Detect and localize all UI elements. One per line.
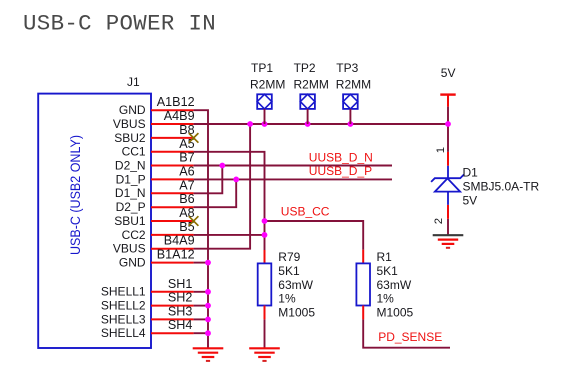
wire D1_N up to UUSB_D_N bbox=[194, 166, 223, 194]
wire VBUS B4A9 riser bbox=[194, 124, 251, 249]
svg-text:TP2: TP2 bbox=[294, 61, 316, 75]
test point TP1 bbox=[257, 94, 272, 124]
svg-text:R1: R1 bbox=[377, 250, 393, 264]
diode D1 pin 1 bbox=[447, 152, 449, 178]
svg-text:A1B12: A1B12 bbox=[157, 95, 195, 109]
no-connect X on pin B8 bbox=[189, 133, 199, 143]
svg-text:UUSB_D_N: UUSB_D_N bbox=[309, 150, 373, 164]
pin CC1 A5 bbox=[122, 137, 195, 159]
svg-text:B6: B6 bbox=[179, 192, 194, 206]
test point TP2 bbox=[300, 94, 315, 124]
svg-text:SHELL2: SHELL2 bbox=[101, 299, 146, 313]
wire SHELL4 stub to bus bbox=[194, 332, 208, 334]
wire CC2 to riser bbox=[194, 234, 265, 236]
power port 5V bar bbox=[440, 95, 455, 107]
svg-text:5K1: 5K1 bbox=[377, 264, 399, 278]
svg-text:CC2: CC2 bbox=[122, 228, 146, 242]
svg-text:GND: GND bbox=[119, 103, 146, 117]
svg-text:63mW: 63mW bbox=[377, 278, 412, 292]
svg-text:5V: 5V bbox=[441, 66, 456, 80]
resistor R79 body bbox=[258, 250, 272, 319]
svg-text:SHELL1: SHELL1 bbox=[101, 285, 146, 299]
wire D2_P up to UUSB_D_P bbox=[194, 179, 237, 207]
wire R1 bottom / PD_SENSE bbox=[363, 319, 450, 347]
wire D1 pin2 to ground bbox=[447, 219, 449, 235]
svg-text:R2MM: R2MM bbox=[250, 78, 285, 92]
svg-text:A8: A8 bbox=[179, 206, 194, 220]
svg-text:D1_P: D1_P bbox=[116, 172, 146, 186]
wire SHELL2 stub to bus bbox=[194, 305, 208, 307]
svg-text:R2MM: R2MM bbox=[294, 78, 329, 92]
svg-text:SHELL3: SHELL3 bbox=[101, 312, 146, 326]
svg-text:SBU1: SBU1 bbox=[114, 214, 146, 228]
svg-text:GND: GND bbox=[119, 256, 146, 270]
wire SHELL3 stub to bus bbox=[194, 318, 208, 320]
pin D1_N A7 bbox=[115, 178, 195, 200]
svg-text:5K1: 5K1 bbox=[278, 264, 300, 278]
svg-text:SH2: SH2 bbox=[168, 291, 193, 305]
pin GND A1B12 bbox=[119, 95, 195, 117]
svg-text:M1005: M1005 bbox=[278, 306, 315, 320]
test point TP3 bbox=[343, 94, 358, 124]
svg-text:R79: R79 bbox=[278, 250, 300, 264]
svg-text:VBUS: VBUS bbox=[113, 242, 146, 256]
junction dots VBUS rail bbox=[247, 121, 451, 127]
svg-text:1%: 1% bbox=[377, 292, 395, 306]
svg-text:D2_N: D2_N bbox=[115, 158, 146, 172]
diode D1 symbol bbox=[431, 175, 464, 205]
wire 5V stub bbox=[447, 107, 449, 124]
pin SBU2 B8 bbox=[114, 123, 194, 145]
wire CC1 to USB_CC riser bbox=[194, 152, 265, 250]
ground below D1 bbox=[433, 235, 464, 248]
junction USB_CC bbox=[262, 218, 268, 224]
svg-text:SH3: SH3 bbox=[168, 304, 193, 318]
svg-text:B8: B8 bbox=[179, 123, 194, 137]
labels R79 bbox=[278, 250, 315, 319]
svg-text:B1A12: B1A12 bbox=[157, 248, 195, 262]
svg-text:SHELL4: SHELL4 bbox=[101, 326, 146, 340]
svg-text:SH1: SH1 bbox=[168, 277, 193, 291]
svg-text:TP1: TP1 bbox=[251, 61, 273, 75]
labels D1 bbox=[463, 166, 540, 208]
pin SHELL1 SH1 bbox=[101, 277, 194, 299]
wire VBUS junction to D1 pin1 bbox=[447, 124, 449, 152]
svg-text:R2MM: R2MM bbox=[336, 78, 371, 92]
svg-text:J1: J1 bbox=[127, 75, 140, 89]
pin SHELL4 SH4 bbox=[101, 318, 194, 340]
svg-text:CC1: CC1 bbox=[122, 145, 146, 159]
junction UUSB_D_N bbox=[219, 163, 225, 169]
svg-text:PD_SENSE: PD_SENSE bbox=[378, 330, 442, 344]
svg-text:2: 2 bbox=[433, 218, 445, 224]
svg-text:VBUS: VBUS bbox=[113, 117, 146, 131]
svg-text:D1: D1 bbox=[463, 166, 479, 180]
svg-text:A4B9: A4B9 bbox=[164, 109, 195, 123]
wire USB_CC horizontal to R1 bbox=[265, 221, 364, 250]
svg-text:B4A9: B4A9 bbox=[164, 234, 195, 248]
svg-text:SMBJ5.0A-TR: SMBJ5.0A-TR bbox=[463, 180, 540, 194]
svg-text:5V: 5V bbox=[463, 194, 478, 208]
svg-text:UUSB_D_P: UUSB_D_P bbox=[309, 164, 372, 178]
wire UUSB_D_P bbox=[194, 178, 392, 180]
wire GND A1B12 to ground bus bbox=[194, 110, 208, 348]
diode D1 pin 2 bbox=[447, 205, 449, 219]
no-connect X on pin A8 bbox=[189, 216, 199, 226]
svg-text:SH4: SH4 bbox=[168, 318, 193, 332]
pin VBUS A4B9 bbox=[113, 109, 195, 131]
pin D1_P A6 bbox=[116, 164, 195, 186]
wire UUSB_D_N bbox=[194, 165, 392, 167]
wire GND B1A12 stub to bus bbox=[194, 262, 208, 264]
pin CC2 B5 bbox=[122, 220, 195, 242]
connector J1 body bbox=[38, 94, 151, 348]
pin D2_P B6 bbox=[116, 192, 195, 214]
svg-text:1: 1 bbox=[435, 147, 447, 153]
svg-text:63mW: 63mW bbox=[278, 278, 313, 292]
svg-text:USB-C (USB2 ONLY): USB-C (USB2 ONLY) bbox=[67, 135, 83, 255]
pin SHELL2 SH2 bbox=[101, 291, 194, 313]
svg-text:D1_N: D1_N bbox=[115, 186, 146, 200]
svg-text:USB_CC: USB_CC bbox=[281, 205, 330, 219]
junction CC2 bbox=[262, 232, 268, 238]
labels R1 bbox=[377, 250, 414, 319]
svg-text:USB-C POWER IN: USB-C POWER IN bbox=[23, 11, 216, 37]
junctions GND bus bbox=[205, 260, 211, 336]
pin SHELL3 SH3 bbox=[101, 304, 194, 326]
pin GND B1A12 bbox=[119, 248, 195, 270]
pin VBUS B4A9 bbox=[113, 234, 195, 256]
pin SBU1 A8 bbox=[114, 206, 194, 228]
svg-text:SBU2: SBU2 bbox=[114, 131, 146, 145]
pin D2_N B7 bbox=[115, 151, 195, 173]
svg-text:1%: 1% bbox=[278, 292, 296, 306]
svg-text:A6: A6 bbox=[179, 164, 194, 178]
svg-text:D2_P: D2_P bbox=[116, 200, 146, 214]
svg-text:B7: B7 bbox=[179, 151, 194, 165]
wire R79 bottom to ground bbox=[264, 319, 266, 348]
resistor R1 body bbox=[356, 250, 370, 320]
ground below R79 bbox=[249, 348, 280, 361]
wire SHELL1 stub to bus bbox=[194, 291, 208, 293]
ground at connector shield bus bbox=[193, 348, 224, 361]
junction UUSB_D_P bbox=[233, 177, 239, 183]
svg-text:M1005: M1005 bbox=[377, 306, 414, 320]
wire VBUS rail bbox=[194, 123, 448, 125]
svg-text:TP3: TP3 bbox=[336, 61, 358, 75]
svg-text:A7: A7 bbox=[179, 178, 194, 192]
